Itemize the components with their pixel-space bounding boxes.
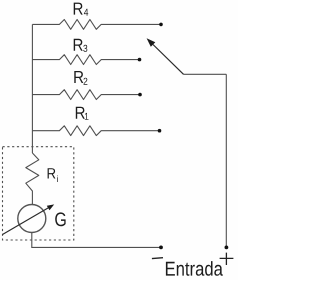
wire right vertical down (225, 74, 227, 247)
label Entrada (166, 261, 223, 276)
resistor R2 (32, 90, 140, 100)
terminal plus sign (220, 253, 234, 265)
galvanometer needle arrow (3, 204, 55, 234)
label Ri (48, 168, 58, 182)
switch wiper arrow (147, 38, 184, 74)
galvanometer G circle (18, 205, 46, 233)
node terminal positive (225, 246, 229, 250)
node contact R2 (138, 93, 142, 97)
label R3 (74, 39, 88, 52)
label G (55, 212, 65, 226)
node contact R3 (138, 58, 142, 62)
node contact R4 (159, 23, 163, 27)
wire switch pivot to right edge (184, 73, 227, 75)
dashed box around meter (3, 147, 74, 240)
resistor R4 (32, 20, 161, 30)
label R4 (74, 3, 89, 16)
label R2 (74, 71, 87, 85)
label R1 (76, 107, 89, 120)
node contact R1 (158, 129, 162, 133)
resistor Ri (26, 153, 39, 205)
wire G bottom to Entrada terminal (32, 233, 161, 248)
wire left bus (31, 24, 33, 153)
node terminal negative (159, 246, 163, 250)
terminal minus sign (152, 257, 163, 260)
resistor R1 (32, 126, 159, 136)
resistor R3 (32, 55, 139, 65)
